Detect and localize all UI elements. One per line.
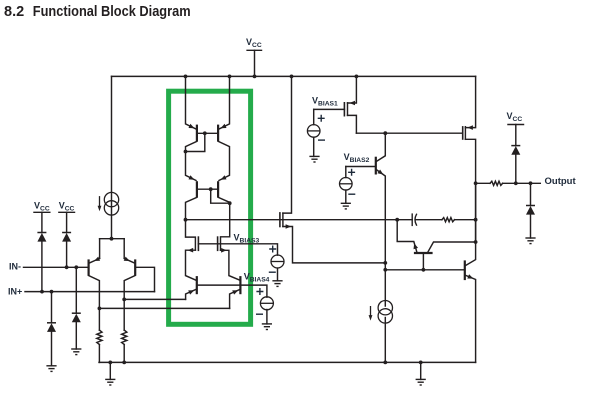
svg-text:VBIAS1: VBIAS1 (312, 95, 338, 107)
svg-text:VBIAS4: VBIAS4 (244, 272, 270, 284)
svg-text:VBIAS3: VBIAS3 (234, 233, 260, 245)
svg-text:VBIAS2: VBIAS2 (344, 152, 370, 164)
svg-text:Output: Output (545, 176, 577, 187)
svg-text:VCC: VCC (59, 200, 75, 212)
svg-text:8.2: 8.2 (4, 4, 24, 20)
svg-text:VCC: VCC (34, 200, 50, 212)
svg-text:VCC: VCC (507, 111, 523, 123)
svg-text:IN+: IN+ (8, 287, 22, 297)
svg-text:IN-: IN- (9, 262, 21, 272)
svg-text:VCC: VCC (246, 37, 262, 49)
svg-text:Functional Block Diagram: Functional Block Diagram (33, 4, 191, 20)
